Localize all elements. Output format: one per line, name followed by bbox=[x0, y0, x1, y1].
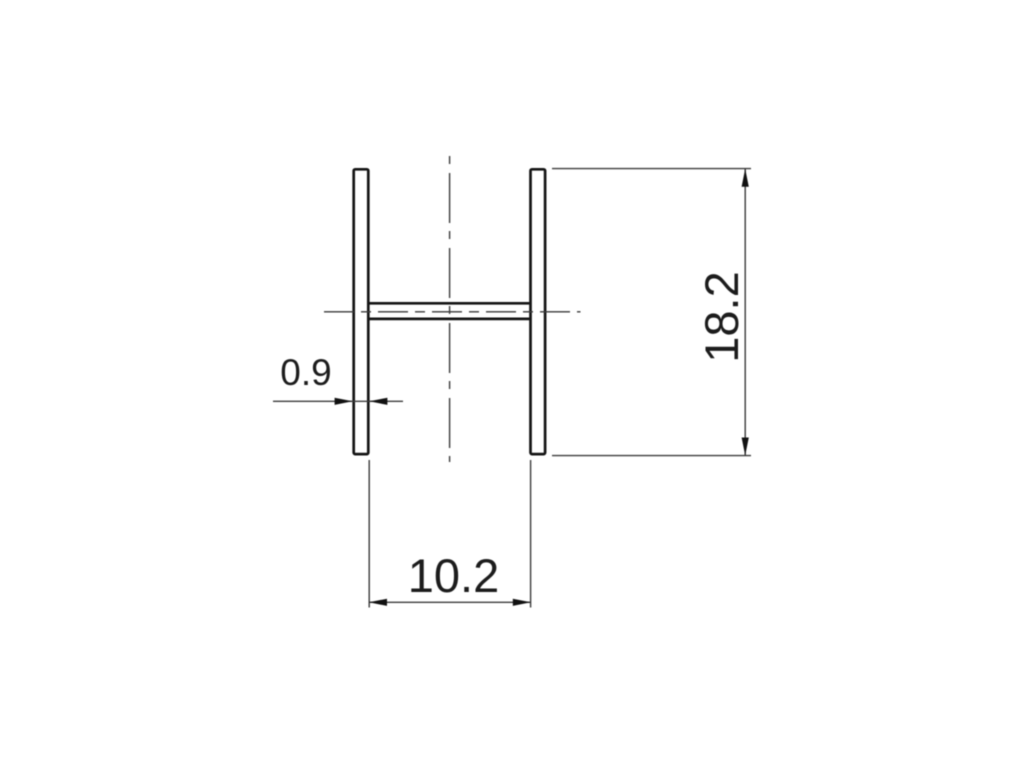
H-profile left flange bbox=[354, 169, 369, 454]
dim 18.2 bottom extension line bbox=[552, 455, 751, 457]
web bottom line bbox=[369, 318, 529, 321]
dim 18.2 top extension line bbox=[552, 168, 751, 170]
web top line bbox=[369, 302, 529, 305]
dim 10.2 dimension line bbox=[369, 601, 530, 603]
svg-text:10.2: 10.2 bbox=[408, 549, 499, 602]
dim 10.2 left arrowhead bbox=[369, 599, 387, 606]
H-profile right flange bbox=[531, 169, 546, 454]
dim 18.2 bottom arrowhead bbox=[742, 438, 749, 456]
dim 0.9 right arrowhead (points left at flange inner wall) bbox=[369, 398, 387, 405]
dim 18.2 top arrowhead bbox=[742, 169, 749, 187]
dim 0.9 dimension line bbox=[273, 400, 403, 402]
vertical centerline bbox=[449, 156, 451, 462]
dim 10.2 right arrowhead bbox=[513, 599, 531, 606]
svg-text:0.9: 0.9 bbox=[280, 352, 331, 393]
dim 0.9 left arrowhead (points right at flange outer wall) bbox=[335, 398, 353, 405]
dim 18.2 dimension line bbox=[744, 169, 746, 455]
dim 10.2 left extension line bbox=[368, 460, 370, 608]
dim 10.2 right extension line bbox=[530, 460, 532, 608]
svg-text:18.2: 18.2 bbox=[695, 271, 748, 362]
horizontal centerline bbox=[324, 311, 581, 313]
